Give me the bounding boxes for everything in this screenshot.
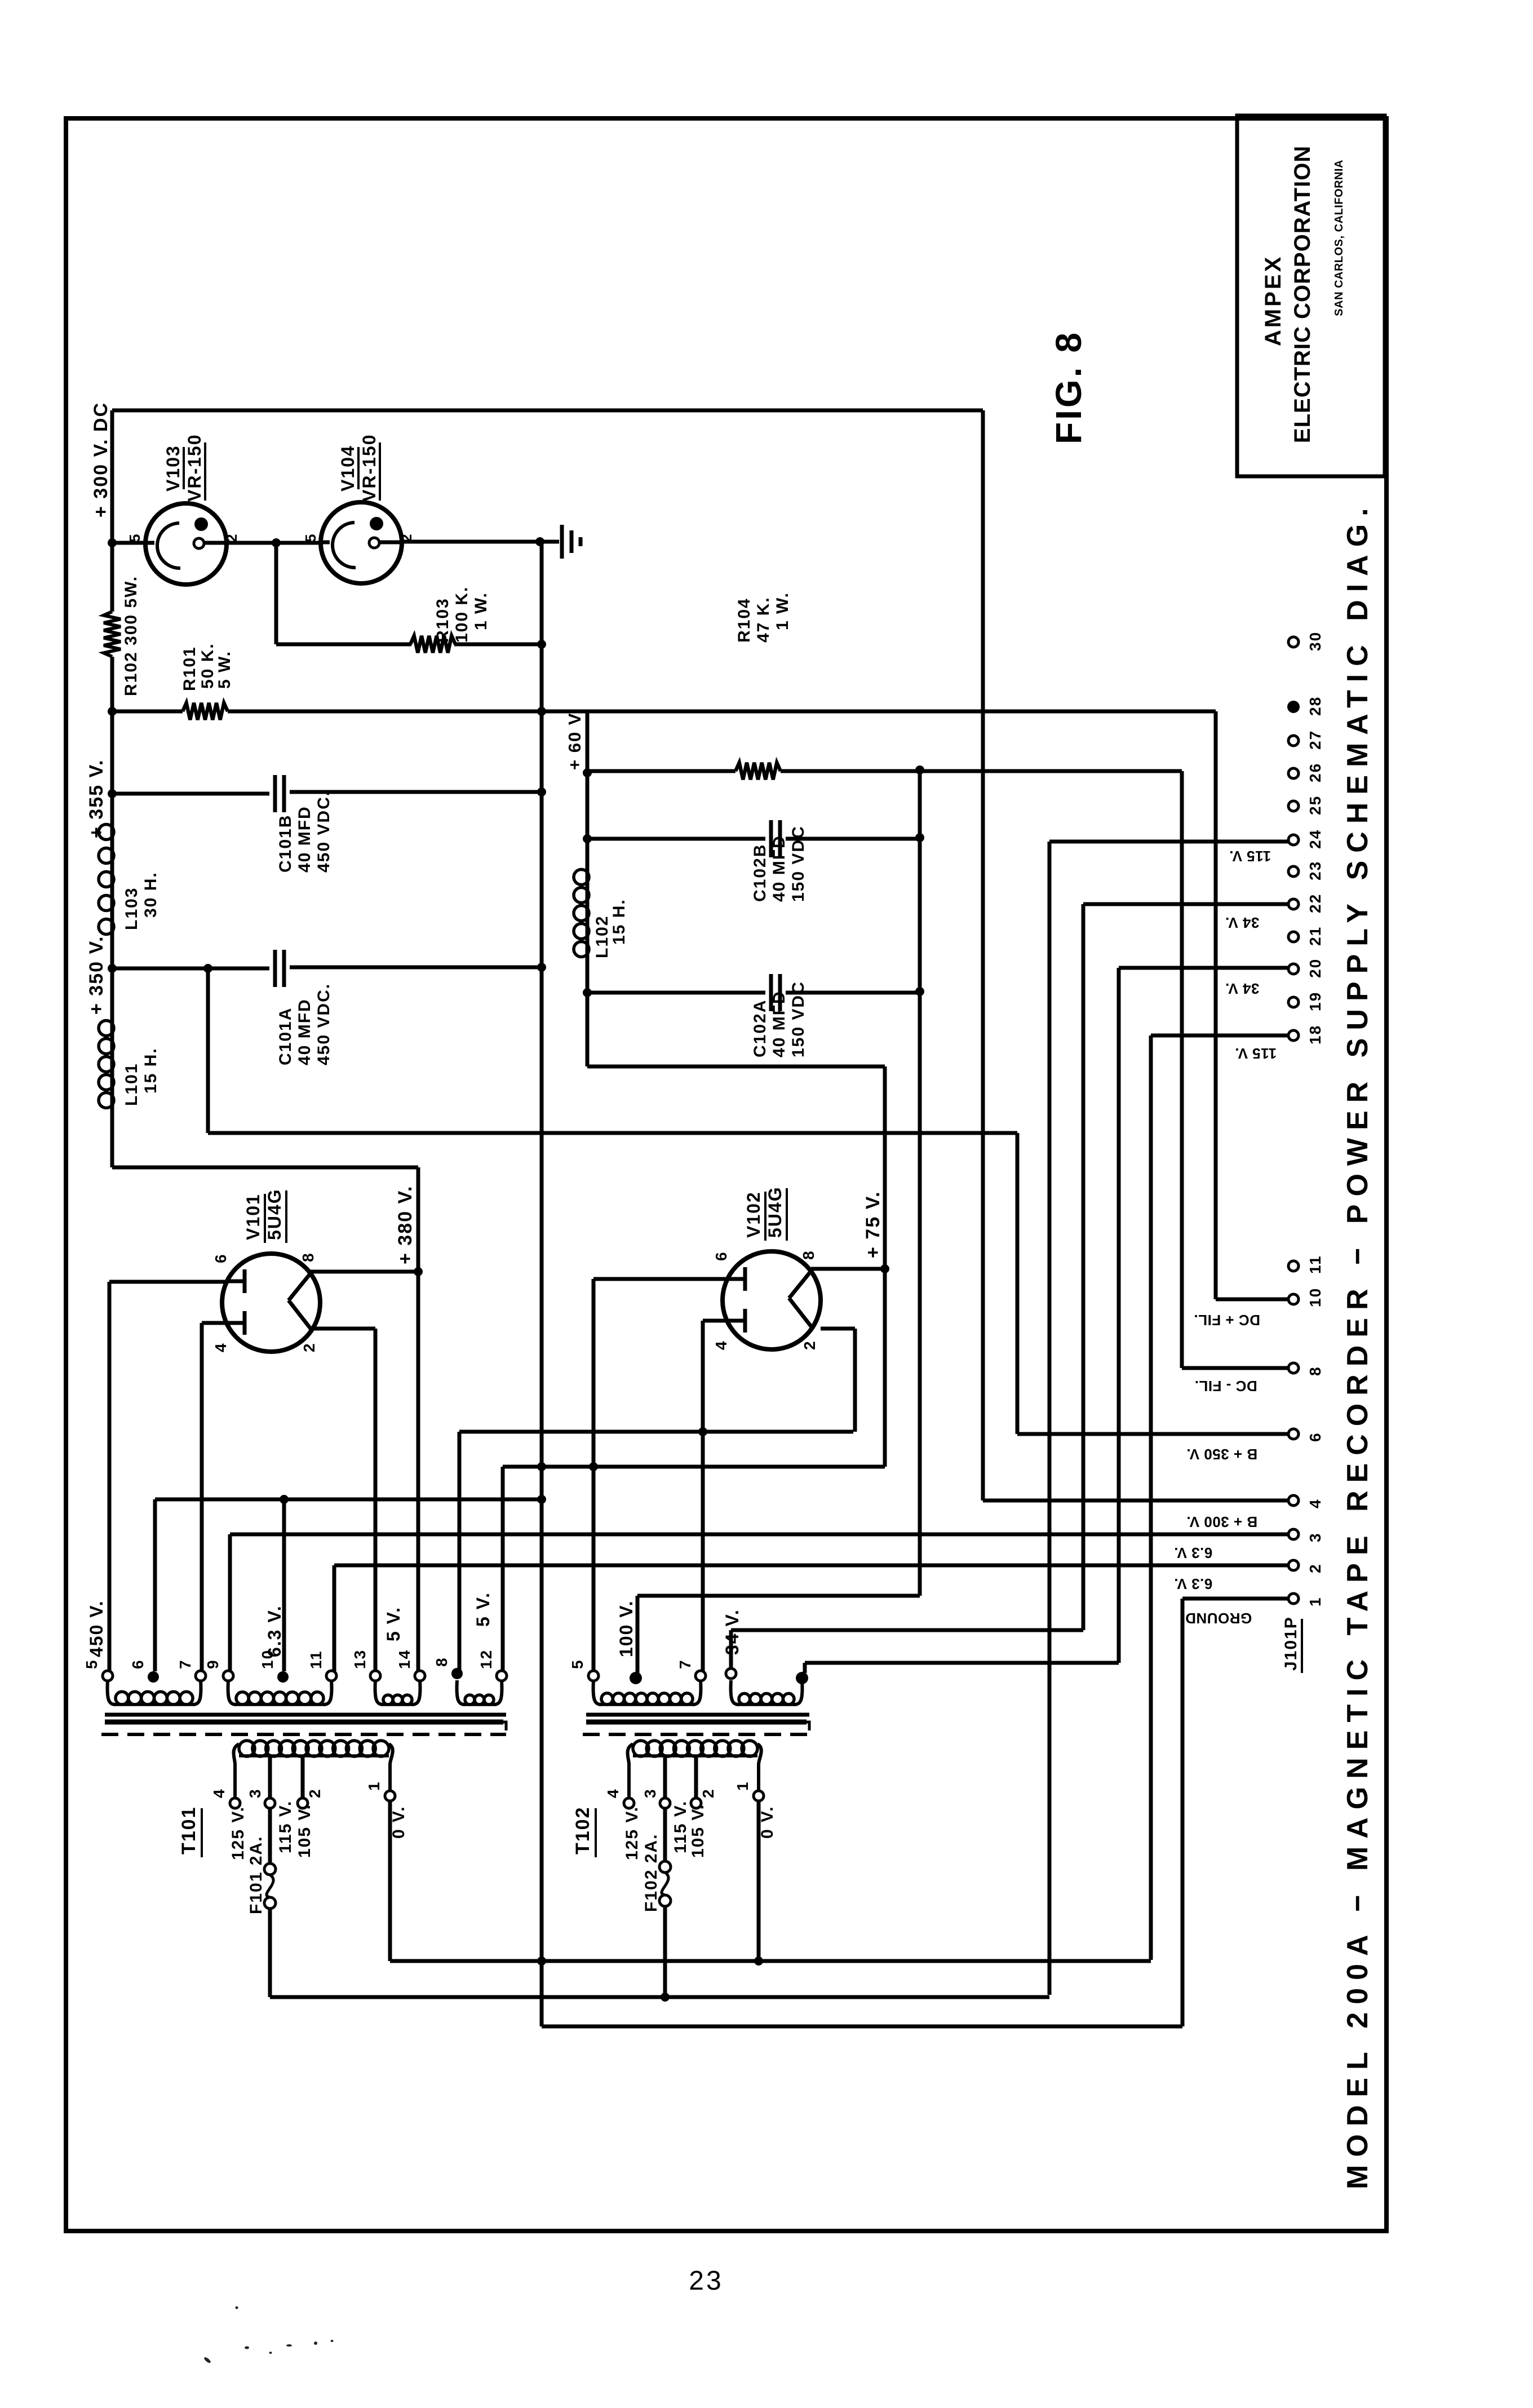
wire 6.3V run to terminal 3 bbox=[230, 1533, 1288, 1537]
T102 terminal 7 bbox=[695, 1671, 706, 1681]
T101 5V winding A bbox=[375, 1680, 383, 1705]
tube V103 internal arc bbox=[157, 523, 180, 568]
svg-text:11: 11 bbox=[307, 1650, 325, 1669]
svg-text:5U4G: 5U4G bbox=[765, 1186, 785, 1238]
terminal 2 of J101P bbox=[1288, 1560, 1299, 1570]
fuse F102 bbox=[663, 1808, 667, 1861]
wire +380 vertical to V101 pin8 and T101 terminal 14 bbox=[417, 1167, 420, 1676]
wire L101 down to corner bbox=[110, 1109, 114, 1167]
wire 115V bottom bus (to terminal 24) bbox=[270, 1995, 1049, 1999]
wire C102B branch bbox=[587, 837, 765, 841]
svg-text:47 K.: 47 K. bbox=[754, 596, 773, 643]
svg-text:14: 14 bbox=[396, 1649, 413, 1669]
T101 terminal 10 bbox=[277, 1671, 289, 1683]
tube V102 filament bbox=[789, 1271, 811, 1298]
T101 terminal 8 bbox=[451, 1668, 463, 1679]
svg-text:21: 21 bbox=[1306, 926, 1324, 946]
tube V104 cathode circle bbox=[321, 541, 330, 545]
terminal 4 of J101P bbox=[1288, 1495, 1299, 1506]
terminal 20 of J101P bbox=[1288, 964, 1299, 974]
capacitor C101B bbox=[273, 775, 277, 812]
tube V102 plate 1 (pin 6) bbox=[726, 1277, 745, 1281]
svg-text:15 H.: 15 H. bbox=[610, 898, 628, 945]
svg-text:115 V.: 115 V. bbox=[276, 1800, 295, 1853]
svg-text:40 MFD: 40 MFD bbox=[295, 998, 314, 1065]
svg-text:28: 28 bbox=[1306, 696, 1324, 716]
T102 primary winding bbox=[633, 1754, 757, 1758]
page border frame bbox=[66, 118, 1386, 2231]
svg-text:8: 8 bbox=[433, 1657, 450, 1667]
node C102B/collector junction bbox=[915, 833, 924, 842]
terminal 23 of J101P bbox=[1288, 866, 1299, 877]
svg-text:34 V.: 34 V. bbox=[1225, 980, 1260, 997]
inductor L103 bbox=[110, 820, 114, 939]
svg-text:C102A: C102A bbox=[751, 999, 769, 1057]
wire 0V bottom bus (to terminal 18) bbox=[390, 1959, 1151, 1963]
terminal 25 of J101P bbox=[1288, 801, 1299, 811]
wire ground bus vertical bbox=[540, 542, 544, 2026]
svg-text:1: 1 bbox=[1306, 1596, 1324, 1606]
svg-text:15 H.: 15 H. bbox=[141, 1047, 160, 1094]
svg-text:R102 300 5W.: R102 300 5W. bbox=[122, 576, 140, 696]
wire collector bus vertical (R104/C102 right ends) bbox=[918, 770, 922, 1596]
T101 core bbox=[105, 1713, 506, 1717]
terminal 3 of J101P bbox=[1288, 1529, 1299, 1539]
wire +380 horizontal run bbox=[112, 1166, 418, 1170]
svg-text:450 VDC.: 450 VDC. bbox=[314, 790, 333, 873]
svg-text:450 V.: 450 V. bbox=[86, 1600, 107, 1657]
T101 primary winding bbox=[239, 1754, 389, 1758]
node C102A/collector junction bbox=[915, 987, 924, 996]
wire L103 to +350 node bbox=[110, 939, 114, 968]
svg-text:125 V.: 125 V. bbox=[623, 1806, 641, 1860]
wire V101 pin 6 to T101 terminal 5 bbox=[109, 1280, 225, 1284]
terminal 6 of J101P bbox=[1288, 1429, 1299, 1439]
T101 6.3V winding bbox=[228, 1680, 236, 1705]
T102 34V winding bbox=[731, 1680, 739, 1705]
wire L102 to C102A branch bbox=[586, 958, 590, 1066]
svg-text:2: 2 bbox=[801, 1340, 818, 1350]
T101 terminal 11 bbox=[326, 1671, 336, 1681]
wire C102A branch bbox=[587, 991, 765, 995]
svg-text:11: 11 bbox=[1306, 1255, 1324, 1274]
svg-text:115 V.: 115 V. bbox=[1229, 848, 1271, 865]
T101 terminal 9 bbox=[223, 1671, 233, 1681]
svg-text:7: 7 bbox=[676, 1659, 694, 1669]
T101 terminal 7 bbox=[196, 1671, 206, 1681]
svg-text:150 VDC: 150 VDC bbox=[789, 825, 808, 902]
svg-text:R103: R103 bbox=[433, 597, 452, 643]
svg-text:VR-150: VR-150 bbox=[359, 434, 379, 502]
wire B+350 run to terminal 6 bbox=[459, 1430, 853, 1434]
tube V101 5U4G envelope bbox=[222, 1254, 320, 1352]
svg-text:B + 350 V.: B + 350 V. bbox=[1186, 1446, 1257, 1463]
wire 34V left run bbox=[731, 1628, 1083, 1632]
node +355V junction bbox=[108, 789, 117, 798]
svg-text:SAN CARLOS, CALIFORNIA: SAN CARLOS, CALIFORNIA bbox=[1333, 160, 1345, 316]
svg-text:12: 12 bbox=[477, 1649, 495, 1669]
svg-text:3: 3 bbox=[1306, 1532, 1324, 1542]
terminal 10 of J101P bbox=[1288, 1294, 1299, 1304]
svg-text:5: 5 bbox=[126, 533, 143, 542]
svg-text:V101: V101 bbox=[243, 1193, 263, 1240]
wire T101 0V lead to bus bbox=[388, 1801, 392, 1961]
svg-text:5 W.: 5 W. bbox=[215, 650, 234, 689]
wire 34V right run bbox=[805, 1661, 1119, 1665]
node F102/115V bus junction bbox=[661, 1993, 670, 2002]
svg-text:+ 380 V.: + 380 V. bbox=[395, 1185, 416, 1264]
svg-text:13: 13 bbox=[351, 1649, 369, 1669]
wire V102 pin 2 loop bbox=[821, 1327, 855, 1331]
T102 34V left riser bbox=[729, 1630, 733, 1668]
svg-text:20: 20 bbox=[1306, 958, 1324, 978]
svg-text:22: 22 bbox=[1306, 893, 1324, 913]
tube V104 gas dot bbox=[370, 517, 383, 530]
T101 terminal 12 bbox=[497, 1671, 507, 1681]
scan smudges bbox=[203, 2307, 334, 2364]
tube V103 VR-150 envelope bbox=[145, 503, 227, 585]
svg-text:2: 2 bbox=[1306, 1563, 1324, 1573]
wire +75V chain vertical bbox=[883, 1066, 887, 1467]
svg-text:4: 4 bbox=[210, 1788, 228, 1798]
svg-text:9: 9 bbox=[204, 1659, 221, 1669]
svg-text:F102 2A.: F102 2A. bbox=[642, 1834, 661, 1912]
node ground junction bbox=[535, 537, 544, 546]
svg-text:24: 24 bbox=[1306, 829, 1324, 849]
terminal 26 of J101P bbox=[1288, 768, 1299, 778]
svg-text:AMPEX: AMPEX bbox=[1261, 255, 1286, 346]
wire R101 rail bbox=[112, 710, 183, 714]
svg-text:30: 30 bbox=[1306, 631, 1324, 651]
T101 terminal 1 circle bbox=[385, 1791, 395, 1801]
node T102-5 feeder junction bbox=[589, 1462, 598, 1471]
svg-text:115 V.: 115 V. bbox=[1235, 1045, 1277, 1062]
svg-text:6.3 V.: 6.3 V. bbox=[1174, 1544, 1213, 1561]
T102 34V winding terminal right bbox=[796, 1672, 808, 1684]
svg-text:V104: V104 bbox=[338, 445, 358, 492]
T101 terminal 14 bbox=[415, 1671, 425, 1681]
terminal 19 of J101P bbox=[1288, 997, 1299, 1007]
svg-text:R101: R101 bbox=[180, 646, 199, 691]
node C101A/ground-bus junction bbox=[537, 963, 546, 972]
svg-text:5: 5 bbox=[83, 1659, 100, 1669]
node +380/V101 pin 8 junction bbox=[414, 1267, 423, 1276]
svg-text:6: 6 bbox=[212, 1253, 229, 1263]
svg-text:40 MFD: 40 MFD bbox=[770, 835, 788, 902]
svg-text:T102: T102 bbox=[572, 1807, 593, 1855]
svg-text:V103: V103 bbox=[163, 445, 183, 492]
wire left spine upper bbox=[110, 410, 114, 612]
resistor R104 line bbox=[587, 769, 736, 773]
wire +300V top rail bbox=[112, 409, 983, 413]
T102 34V winding terminal left bbox=[726, 1668, 736, 1679]
T102 terminal 2 circle bbox=[691, 1798, 701, 1808]
wire tube line V103 left bbox=[112, 541, 146, 545]
tube V101 filament bbox=[289, 1273, 311, 1300]
svg-text:8: 8 bbox=[800, 1250, 817, 1260]
node CT ground at bus bbox=[537, 1495, 546, 1504]
svg-text:19: 19 bbox=[1306, 991, 1324, 1011]
T102 primary tap 2 bbox=[694, 1755, 698, 1798]
svg-text:5 V.: 5 V. bbox=[383, 1606, 404, 1641]
node V102 plate feeder junction bbox=[698, 1427, 707, 1436]
node C102B branch junction bbox=[583, 834, 592, 843]
svg-text:+ 75 V.: + 75 V. bbox=[862, 1190, 884, 1258]
svg-text:ELECTRIC CORPORATION: ELECTRIC CORPORATION bbox=[1290, 145, 1315, 443]
svg-text:1 W.: 1 W. bbox=[773, 592, 792, 630]
node T102 0V junction bbox=[754, 1957, 763, 1966]
node ground-bus/+75V junction bbox=[537, 1462, 546, 1471]
node +350V junction bbox=[108, 964, 117, 973]
resistor R103 bbox=[410, 636, 455, 653]
svg-text:FIG. 8: FIG. 8 bbox=[1048, 330, 1089, 444]
svg-text:1 W.: 1 W. bbox=[472, 592, 490, 630]
wire R103 horizontal bbox=[276, 643, 411, 647]
node T101 terminal 10 junction bbox=[280, 1495, 289, 1504]
svg-text:100 K.: 100 K. bbox=[453, 586, 471, 643]
svg-text:L102: L102 bbox=[593, 915, 612, 958]
wire DC-FIL feeder vertical bbox=[1180, 771, 1184, 1368]
svg-text:4: 4 bbox=[1306, 1498, 1324, 1508]
fuse F101 bbox=[268, 1808, 272, 1863]
svg-text:2: 2 bbox=[300, 1342, 318, 1352]
T101 terminal 3 circle bbox=[265, 1798, 275, 1808]
terminal 21 of J101P bbox=[1288, 932, 1299, 942]
wire +60V chain down bbox=[586, 773, 590, 868]
svg-text:4: 4 bbox=[212, 1342, 229, 1352]
wire T101 center-tap ground line bbox=[155, 1498, 542, 1502]
node C101B/ground-bus junction bbox=[537, 787, 546, 796]
svg-text:4: 4 bbox=[604, 1788, 622, 1798]
svg-text:6.3 V.: 6.3 V. bbox=[1174, 1575, 1213, 1592]
wire 34V run to terminal 22 bbox=[1082, 904, 1085, 1630]
terminal 24 of J101P bbox=[1288, 835, 1299, 845]
node spine/R101-rail junction bbox=[108, 707, 117, 716]
svg-text:R104: R104 bbox=[735, 597, 754, 643]
svg-text:L101: L101 bbox=[122, 1063, 141, 1106]
wire +350 tap down bbox=[206, 968, 210, 1133]
wire B+300 horizontal to terminal 4 bbox=[983, 1499, 1288, 1503]
svg-text:450 VDC.: 450 VDC. bbox=[314, 983, 333, 1065]
svg-text:5 V.: 5 V. bbox=[473, 1592, 493, 1627]
svg-text:GROUND: GROUND bbox=[1185, 1610, 1252, 1627]
inductor L101 bbox=[110, 1019, 114, 1109]
svg-text:8: 8 bbox=[299, 1252, 317, 1262]
svg-text:C101B: C101B bbox=[276, 815, 295, 873]
wire B+350 feeder vertical bbox=[1016, 1133, 1020, 1434]
svg-text:L103: L103 bbox=[122, 887, 141, 930]
T101 terminal 2 circle bbox=[298, 1798, 308, 1808]
terminal 1 of J101P bbox=[1288, 1593, 1299, 1604]
svg-text:3: 3 bbox=[641, 1788, 659, 1798]
wire 34V run to terminal 20 bbox=[1117, 968, 1121, 1663]
node ground bus / 0V bus crossing bbox=[537, 1957, 546, 1966]
svg-text:2: 2 bbox=[699, 1788, 717, 1798]
svg-text:T101: T101 bbox=[178, 1807, 200, 1855]
T101 450V winding bbox=[108, 1680, 116, 1705]
svg-text:1: 1 bbox=[734, 1781, 751, 1791]
svg-text:6: 6 bbox=[1306, 1432, 1324, 1442]
node tube midpoint junction bbox=[272, 538, 281, 547]
wire DC+FIL feeder vertical bbox=[1214, 711, 1218, 1299]
svg-text:MODEL 200A − MAGNETIC TAPE: MODEL 200A − MAGNETIC TAPE RECORDER − PO… bbox=[1341, 500, 1374, 2189]
ground symbol bbox=[540, 540, 559, 544]
terminal 22 of J101P bbox=[1288, 899, 1299, 909]
wire +350 tap across to B+350 feeder bbox=[208, 1131, 1017, 1135]
wire V101 pin 4 to T101 terminal 7 bbox=[202, 1321, 225, 1325]
svg-text:4: 4 bbox=[712, 1340, 730, 1350]
svg-text:23: 23 bbox=[689, 2266, 723, 2296]
T102 core bbox=[586, 1713, 809, 1717]
T102 terminal 5 bbox=[588, 1671, 599, 1681]
T101 terminal 6 riser bbox=[153, 1499, 157, 1671]
node +75V/V102 pin 8 junction bbox=[880, 1264, 889, 1273]
svg-text:C102B: C102B bbox=[751, 844, 769, 902]
T102 primary tap 3 bbox=[663, 1755, 667, 1798]
wire 6.3V run to terminal 2 bbox=[334, 1564, 1288, 1568]
wire +355/C101B branch bbox=[112, 792, 269, 796]
T101 5V winding B bbox=[457, 1680, 465, 1705]
svg-text:J101P: J101P bbox=[1282, 1616, 1300, 1671]
T102 terminal 4 circle bbox=[624, 1798, 634, 1808]
wire ground bottom bus bbox=[542, 2025, 1182, 2029]
svg-text:23: 23 bbox=[1306, 861, 1324, 880]
wire T102 0V lead to bus bbox=[757, 1801, 761, 1961]
svg-text:DC + FIL.: DC + FIL. bbox=[1194, 1312, 1260, 1329]
wire +75V chain horizontal bbox=[587, 1065, 885, 1069]
svg-text:6: 6 bbox=[712, 1251, 730, 1261]
svg-text:0 V.: 0 V. bbox=[758, 1805, 777, 1839]
AMPEX title box bbox=[1237, 116, 1385, 476]
resistor R102 bbox=[104, 612, 121, 657]
tube V103 cathode circle bbox=[146, 541, 154, 545]
svg-text:6.3 V.: 6.3 V. bbox=[264, 1605, 285, 1657]
tube V104 VR-150 envelope bbox=[321, 502, 402, 583]
wire +75V horizontal to T102 bbox=[503, 1465, 885, 1469]
wire V102 pin 6 to T102 terminal 5 bbox=[593, 1277, 726, 1281]
svg-text:105 V.: 105 V. bbox=[295, 1804, 314, 1858]
svg-text:5U4G: 5U4G bbox=[264, 1188, 285, 1240]
svg-text:3: 3 bbox=[246, 1788, 264, 1798]
T101 terminal 11 riser bbox=[333, 1565, 336, 1671]
wire R101-rail extension to +60V corner bbox=[542, 710, 587, 714]
T101 terminal 4 circle bbox=[230, 1798, 240, 1808]
T101 primary tap 2 bbox=[301, 1755, 305, 1798]
svg-text:40 MFD: 40 MFD bbox=[770, 990, 788, 1057]
svg-text:50 K.: 50 K. bbox=[198, 643, 217, 689]
svg-text:B + 300 V.: B + 300 V. bbox=[1186, 1513, 1257, 1530]
node spine/tube-line junction bbox=[108, 538, 117, 547]
tube V101 plate 2 (pin 4) bbox=[225, 1321, 245, 1325]
T102 100V winding bbox=[593, 1680, 601, 1705]
T101 terminal 12 riser bbox=[501, 1467, 505, 1671]
svg-text:26: 26 bbox=[1306, 763, 1324, 782]
T102 primary lead 4 bbox=[627, 1744, 633, 1798]
svg-text:+ 300 V. DC: + 300 V. DC bbox=[90, 402, 112, 517]
svg-text:C101A: C101A bbox=[276, 1007, 295, 1065]
svg-text:30 H.: 30 H. bbox=[141, 871, 160, 918]
svg-text:0 V.: 0 V. bbox=[389, 1805, 408, 1839]
svg-text:115 V.: 115 V. bbox=[671, 1800, 690, 1853]
terminal 30 of J101P bbox=[1288, 637, 1299, 647]
wire GROUND run to terminal 1 bbox=[1182, 1597, 1288, 1601]
terminal 8 of J101P bbox=[1288, 1363, 1299, 1373]
T101 terminal 13 bbox=[370, 1671, 380, 1681]
svg-text:25: 25 bbox=[1306, 795, 1324, 815]
wire B+300 vertical feeder bbox=[981, 410, 985, 1500]
node C102A branch junction bbox=[583, 988, 592, 997]
svg-text:+ 60 V.: + 60 V. bbox=[565, 708, 584, 770]
node R104/collector junction bbox=[915, 765, 924, 774]
svg-text:34 V.: 34 V. bbox=[1225, 914, 1260, 931]
wire upper 115V run to terminal-10 feeder corner bbox=[587, 710, 1216, 714]
tube V102 plate 2 (pin 4) bbox=[726, 1319, 745, 1323]
svg-text:8: 8 bbox=[1306, 1366, 1324, 1376]
svg-text:2: 2 bbox=[306, 1788, 324, 1798]
T101 terminal 5 bbox=[103, 1671, 113, 1681]
wire V101 pin 8 to +380 node bbox=[311, 1270, 418, 1274]
wire V104 to ground node bbox=[402, 540, 542, 544]
svg-text:40 MFD: 40 MFD bbox=[295, 805, 314, 873]
node +60V junction bbox=[583, 768, 592, 777]
wire V102 pin 8 to +75V node bbox=[811, 1267, 885, 1271]
svg-text:DC - FIL.: DC - FIL. bbox=[1194, 1378, 1257, 1395]
svg-text:V102: V102 bbox=[743, 1191, 764, 1238]
T102 terminal 3 circle bbox=[660, 1798, 670, 1808]
wire spine R102 to R101 rail bbox=[110, 657, 114, 711]
wire F102 to 115V bus bbox=[663, 1906, 667, 1997]
wire V102 pin 4 down bbox=[703, 1319, 726, 1323]
tube V103 gas dot bbox=[194, 517, 208, 531]
T101 terminal 9 riser bbox=[228, 1534, 232, 1671]
node +350 rail tap junction bbox=[203, 964, 212, 973]
svg-text:5: 5 bbox=[302, 533, 319, 542]
inductor L102 bbox=[586, 868, 590, 958]
svg-text:100 V.: 100 V. bbox=[616, 1600, 636, 1657]
terminal 28 of J101P bbox=[1287, 701, 1300, 713]
wire between V103 and V104 bbox=[227, 541, 321, 545]
wire F101 to 115V bus bbox=[268, 1909, 272, 1997]
terminal 27 of J101P bbox=[1288, 736, 1299, 746]
capacitor C101A bbox=[273, 950, 277, 987]
svg-text:125 V.: 125 V. bbox=[229, 1806, 247, 1860]
wire collector to T102 center tap bbox=[637, 1594, 920, 1598]
T101 primary tap 3 bbox=[268, 1755, 272, 1798]
T101 primary lead 4 bbox=[233, 1744, 239, 1798]
T101 terminal 6 bbox=[148, 1671, 159, 1683]
wire DC-FIL run to terminal 8 bbox=[1182, 1366, 1288, 1370]
svg-text:18: 18 bbox=[1306, 1025, 1324, 1044]
node R101/ground-bus junction bbox=[537, 707, 546, 716]
svg-text:6: 6 bbox=[129, 1659, 147, 1669]
T101 terminal 8 riser bbox=[458, 1432, 462, 1670]
capacitor C102A bbox=[769, 974, 773, 1011]
node R103/ground-bus junction bbox=[537, 640, 546, 649]
capacitor C102B bbox=[769, 820, 773, 857]
tube V101 plate 1 (pin 6) bbox=[225, 1280, 245, 1283]
wire 115V run to terminal 18 bbox=[1149, 1035, 1153, 1960]
svg-text:10: 10 bbox=[1306, 1287, 1324, 1307]
svg-text:7: 7 bbox=[176, 1659, 194, 1669]
svg-text:150 VDC: 150 VDC bbox=[789, 981, 808, 1057]
tube V104 internal arc bbox=[333, 523, 356, 568]
T101 terminal 10 riser bbox=[282, 1499, 286, 1671]
wire +350/C101A branch bbox=[112, 967, 269, 971]
svg-text:5: 5 bbox=[569, 1659, 586, 1669]
terminal 18 of J101P bbox=[1288, 1030, 1299, 1041]
svg-text:105 V.: 105 V. bbox=[689, 1804, 707, 1858]
svg-text:VR-150: VR-150 bbox=[184, 434, 205, 502]
